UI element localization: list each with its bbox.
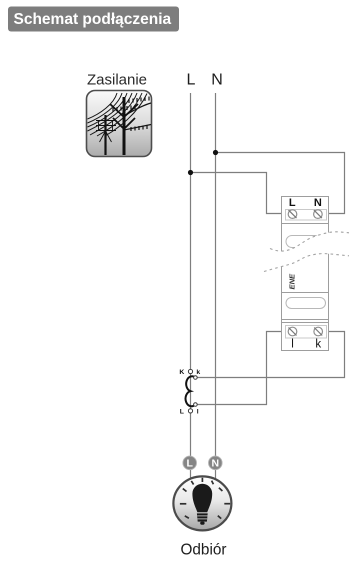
wire N main <box>215 93 217 480</box>
svg-text:L: L <box>186 458 193 470</box>
svg-text:k: k <box>196 369 200 376</box>
wire N branch to meter <box>216 153 345 214</box>
CT coil <box>186 376 196 406</box>
svg-text:Schemat podłączenia: Schemat podłączenia <box>14 11 172 28</box>
power-grid icon <box>87 91 152 157</box>
meter terminal strip bottom <box>286 326 327 339</box>
svg-text:k: k <box>315 339 321 351</box>
svg-text:Odbiór: Odbiór <box>181 542 227 559</box>
right pole <box>123 97 126 155</box>
svg-text:l: l <box>291 339 294 351</box>
svg-text:Zasilanie: Zasilanie <box>87 72 147 89</box>
wire meter k to CT <box>197 332 344 378</box>
CT terminal k secondary <box>194 376 198 380</box>
CT terminal K <box>188 369 192 373</box>
meter window tab upper <box>286 236 322 248</box>
bulb glass <box>192 484 212 513</box>
node on N <box>213 150 218 155</box>
bulb base <box>197 513 208 521</box>
node on L <box>188 170 193 175</box>
svg-text:L: L <box>187 71 196 88</box>
svg-text:ENE: ENE <box>288 273 297 290</box>
svg-text:L: L <box>180 409 184 416</box>
meter window tab lower <box>286 298 326 309</box>
meter screw l <box>288 327 297 336</box>
svg-text:l: l <box>197 409 199 416</box>
wire meter l to CT <box>197 332 287 405</box>
wire L branch to meter <box>191 173 288 214</box>
CT terminal L <box>188 409 192 413</box>
svg-text:N: N <box>212 458 220 470</box>
left pole <box>104 115 106 155</box>
svg-text:L: L <box>289 197 296 209</box>
terminal bullet L <box>183 456 197 470</box>
terminal bullet N <box>209 456 223 470</box>
meter screw N <box>314 210 323 219</box>
meter terminal strip top <box>286 210 327 221</box>
tear break (torn-out middle) <box>264 232 350 272</box>
meter screw L <box>288 210 297 219</box>
svg-text:N: N <box>314 197 322 209</box>
energy meter body <box>282 197 329 351</box>
svg-text:K: K <box>179 369 184 376</box>
meter screw k <box>314 327 323 336</box>
current transformer <box>179 369 200 416</box>
wire L main <box>190 93 192 480</box>
lamp (load) <box>173 476 231 530</box>
CT terminal l secondary <box>194 403 198 407</box>
svg-text:N: N <box>211 71 223 88</box>
title bar: Schemat podłączenia <box>8 7 179 32</box>
